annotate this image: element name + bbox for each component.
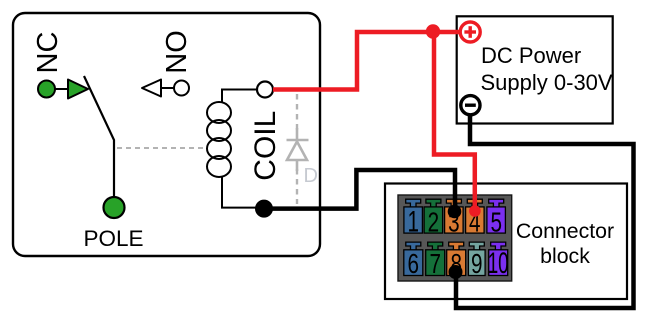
relay box outline [13, 13, 320, 256]
terminal 7 [426, 242, 445, 275]
NC contact triangle [68, 80, 88, 99]
switch lever arm [84, 76, 114, 198]
terminal 2 [424, 199, 443, 233]
plus terminal [460, 22, 480, 42]
POLE terminal (green circle) [104, 197, 125, 218]
svg-text:2: 2 [428, 206, 440, 237]
terminal 6 [404, 242, 423, 275]
wire NO triangle to circle [161, 87, 174, 89]
node dot terminal 4 (red) [469, 205, 481, 217]
NO contact triangle (open) [142, 80, 161, 97]
black wire coil- to terminal 3 [272, 170, 455, 209]
svg-text:DC Power: DC Power [481, 43, 581, 68]
diode D dashed leads [296, 94, 298, 204]
node dot terminal 8 (black) [449, 265, 463, 279]
terminal 5 [487, 199, 506, 233]
coil bottom wire [222, 176, 256, 208]
svg-text:6: 6 [408, 248, 420, 279]
terminal strip base [398, 195, 512, 281]
svg-text:1: 1 [407, 205, 419, 238]
DC power supply box [457, 16, 613, 123]
minus terminal [461, 96, 480, 115]
wire NC circle to triangle [55, 88, 69, 90]
NC contact terminal (green circle) [38, 81, 55, 98]
red wire coil+ to supply [273, 32, 459, 90]
svg-text:10: 10 [488, 247, 509, 280]
node dot terminal 3 (black) [448, 205, 462, 219]
coil terminal bottom (filled circle) [256, 200, 273, 217]
coil top wire [222, 90, 257, 104]
black wire supply- loop to terminal 8 [456, 114, 634, 308]
svg-text:NO: NO [161, 30, 193, 74]
coil terminal top (open circle) [257, 82, 273, 98]
NO contact circle (open) [174, 81, 189, 96]
terminal 9 [468, 242, 485, 275]
svg-text:9: 9 [471, 248, 483, 279]
diode D symbol [287, 128, 309, 171]
svg-text:block: block [540, 244, 590, 268]
svg-text:D: D [304, 165, 318, 187]
svg-text:7: 7 [429, 248, 441, 279]
svg-text:POLE: POLE [83, 226, 143, 251]
svg-text:Supply 0-30V: Supply 0-30V [481, 70, 613, 95]
svg-text:COIL: COIL [249, 111, 282, 181]
svg-text:NC: NC [32, 32, 64, 74]
svg-text:Connector: Connector [516, 219, 614, 243]
terminal 10 [489, 242, 508, 275]
red wire junction to terminal 4 [434, 32, 475, 208]
terminal 8 [447, 242, 466, 275]
svg-text:5: 5 [490, 206, 502, 237]
coil winding L1 [207, 102, 231, 177]
connector block outer box [385, 184, 627, 300]
terminal 1 [404, 199, 423, 233]
mechanical link (dashed) [117, 147, 203, 149]
terminal 3 [445, 199, 464, 233]
terminal 4 [466, 199, 485, 233]
junction dot (red) [426, 24, 440, 38]
